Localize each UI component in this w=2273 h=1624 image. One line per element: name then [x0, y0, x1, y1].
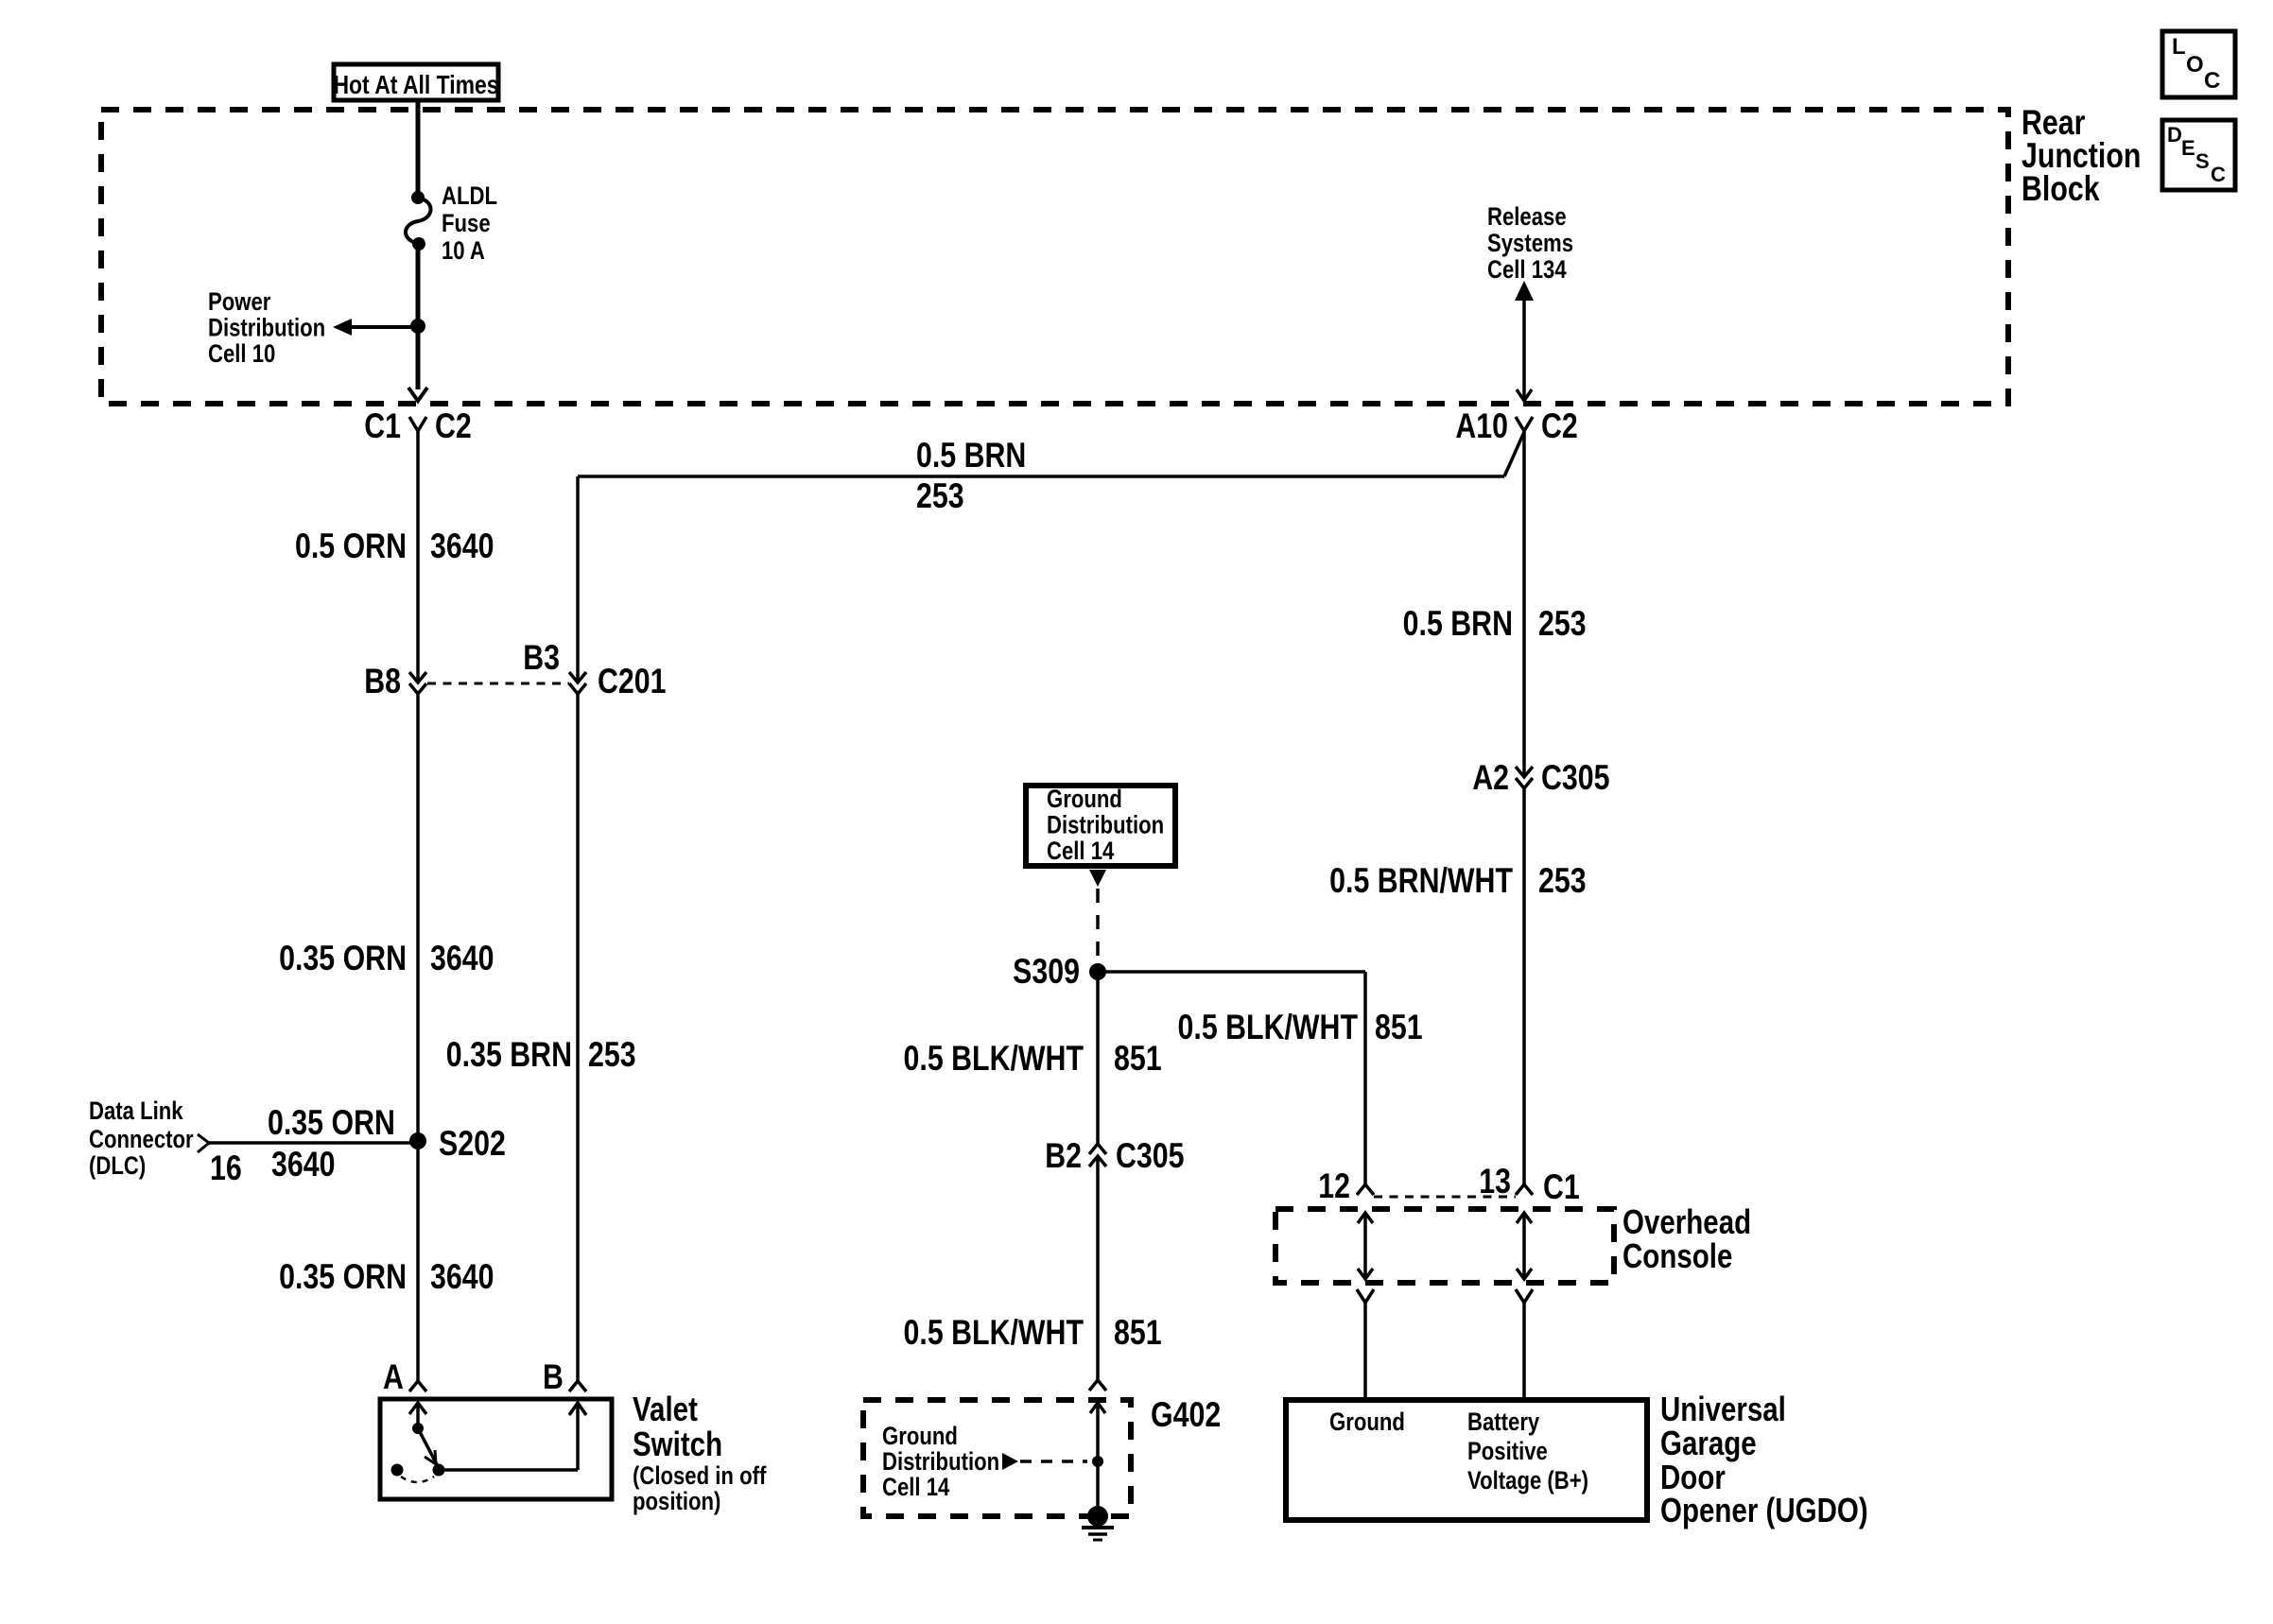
- connector label C305: [1541, 758, 1610, 798]
- terminal chevron B of valet switch: [569, 1381, 586, 1391]
- pin label A10: [1455, 406, 1508, 446]
- svg-text:0.5 BRN: 0.5 BRN: [1403, 604, 1513, 644]
- label: 253 right: [1538, 604, 1587, 644]
- svg-text:Valet: Valet: [633, 1390, 698, 1427]
- svg-text:0.35 ORN: 0.35 ORN: [279, 1257, 407, 1297]
- svg-text:Opener (UGDO): Opener (UGDO): [1660, 1491, 1868, 1529]
- svg-text:3640: 3640: [430, 939, 494, 978]
- svg-text:C2: C2: [1541, 406, 1578, 446]
- svg-text:B3: B3: [523, 638, 560, 678]
- connector C305 A2 halves: [1516, 767, 1533, 788]
- wire: 0.5 BLK/WHT 851 to G402: [1096, 1156, 1100, 1380]
- label: 0.5 BRN right: [1403, 604, 1513, 644]
- svg-text:Garage: Garage: [1660, 1424, 1757, 1461]
- svg-text:253: 253: [916, 476, 964, 516]
- terminal chevron pin 13: [1516, 1184, 1533, 1195]
- svg-text:E: E: [2181, 136, 2195, 160]
- label: 851 lower: [1114, 1313, 1162, 1353]
- pin label 16: [210, 1149, 242, 1188]
- svg-text:Ground: Ground: [1047, 786, 1122, 814]
- splice label S309: [1013, 952, 1080, 992]
- svg-text:Power: Power: [208, 288, 271, 317]
- G402 internal arrow: [1090, 1403, 1105, 1516]
- svg-text:0.35 BRN: 0.35 BRN: [446, 1035, 572, 1075]
- pin label 12: [1318, 1166, 1350, 1206]
- label: Overhead Console: [1622, 1202, 1751, 1274]
- svg-text:C305: C305: [1116, 1136, 1185, 1176]
- svg-text:12: 12: [1318, 1166, 1350, 1206]
- label: 0.35 ORN lower: [279, 1257, 407, 1297]
- svg-text:16: 16: [210, 1149, 242, 1188]
- valet switch open contact dot: [391, 1464, 404, 1477]
- wire: corner down to console pin 12: [1363, 972, 1367, 1184]
- connector A10/C2 of Rear Junction Block: [1516, 417, 1533, 431]
- node: splice to Power Distribution: [410, 319, 425, 334]
- label: 0.35 ORN upper: [279, 939, 407, 978]
- wire: corner down to C201 B3: [576, 476, 580, 682]
- pin label A2: [1472, 758, 1509, 798]
- arrow to Power Distribution Cell 10: [333, 319, 352, 336]
- svg-text:253: 253: [1538, 861, 1587, 901]
- svg-text:G402: G402: [1151, 1395, 1221, 1435]
- svg-text:0.5 BLK/WHT: 0.5 BLK/WHT: [904, 1313, 1084, 1353]
- pin label 13: [1479, 1162, 1511, 1201]
- label: 3640: [430, 527, 494, 566]
- wire: diagonal into A10/C2: [1504, 432, 1524, 476]
- label: 0.5 BRN/WHT: [1329, 861, 1513, 901]
- legend box DESC: [2162, 120, 2235, 190]
- svg-text:ALDL: ALDL: [442, 182, 497, 211]
- label: 3640 lower: [430, 1257, 494, 1297]
- svg-text:Cell 14: Cell 14: [1047, 838, 1115, 866]
- svg-text:position): position): [633, 1488, 720, 1516]
- svg-text:C: C: [2211, 163, 2226, 186]
- svg-text:B8: B8: [364, 662, 401, 701]
- svg-text:10 A: 10 A: [442, 237, 485, 266]
- label: 0.5 BRN top: [916, 436, 1026, 475]
- wire: battery lead to UGDO: [1522, 1303, 1526, 1399]
- pin label C2 right: [1541, 406, 1578, 446]
- svg-text:D: D: [2167, 123, 2182, 147]
- valet switch pivot dot: [412, 1423, 424, 1434]
- arrow to Release Systems Cell 134: [1515, 281, 1534, 401]
- svg-text:Distribution: Distribution: [1047, 812, 1164, 840]
- pin label C1: [364, 406, 401, 446]
- label: 253 mid-left: [588, 1035, 636, 1075]
- svg-text:C201: C201: [598, 662, 667, 701]
- svg-text:Release: Release: [1487, 203, 1567, 232]
- pin label Battery Positive Voltage (B+): [1467, 1408, 1588, 1495]
- pin label A: [383, 1357, 404, 1397]
- arrowhead: hot feed leaving junction block: [408, 388, 427, 401]
- svg-text:Cell 10: Cell 10: [208, 340, 275, 369]
- splice label S202: [439, 1124, 506, 1164]
- svg-text:(DLC): (DLC): [89, 1152, 146, 1181]
- label: 3640 branch: [271, 1145, 335, 1184]
- connector chevron below console pin 12: [1357, 1289, 1374, 1303]
- wire: 0.5 BLK/WHT 851 S309 branch right: [1098, 970, 1365, 974]
- connector C1/C2 of Rear Junction Block: [409, 417, 426, 431]
- svg-text:3640: 3640: [430, 1257, 494, 1297]
- component box: Overhead Console dashed: [1275, 1209, 1614, 1283]
- svg-text:Battery: Battery: [1467, 1408, 1539, 1437]
- svg-text:3640: 3640: [271, 1145, 335, 1184]
- label: 851 branch: [1375, 1008, 1423, 1047]
- svg-text:S309: S309: [1013, 952, 1080, 992]
- valet switch internal wire to B: [439, 1403, 586, 1470]
- svg-text:Data Link: Data Link: [89, 1097, 183, 1126]
- svg-text:0.35 ORN: 0.35 ORN: [268, 1103, 395, 1143]
- svg-text:Distribution: Distribution: [882, 1448, 999, 1477]
- wire: 0.5 BRN 253 horizontal run: [578, 475, 1504, 478]
- wire: 0.5 BRN/WHT 253 from C305 to console: [1522, 788, 1526, 1184]
- svg-text:Ground: Ground: [1329, 1408, 1405, 1437]
- label: 0.5 BLK/WHT lower: [904, 1313, 1084, 1353]
- label: 0.35 ORN branch: [268, 1103, 395, 1143]
- node: splice S309: [1089, 963, 1106, 980]
- svg-text:Block: Block: [2021, 169, 2100, 209]
- pin label B8: [364, 662, 401, 701]
- svg-text:0.5 BRN: 0.5 BRN: [916, 436, 1026, 475]
- terminal chevron A of valet switch: [409, 1381, 426, 1391]
- svg-text:Systems: Systems: [1487, 230, 1573, 258]
- svg-text:0.5 ORN: 0.5 ORN: [295, 527, 407, 566]
- svg-text:S: S: [2195, 149, 2210, 173]
- svg-text:851: 851: [1114, 1313, 1162, 1353]
- svg-text:B2: B2: [1045, 1136, 1082, 1176]
- connector chevron below console pin 13: [1516, 1289, 1533, 1303]
- wire: ground lead to UGDO: [1363, 1303, 1367, 1399]
- svg-text:Positive: Positive: [1467, 1438, 1548, 1466]
- terminal chevron into G402: [1089, 1380, 1106, 1391]
- connector C201 halves B3 side: [569, 672, 586, 694]
- svg-text:0.5 BLK/WHT: 0.5 BLK/WHT: [904, 1039, 1084, 1079]
- svg-text:O: O: [2186, 52, 2204, 78]
- component box: Universal Garage Door Opener: [1286, 1400, 1647, 1520]
- svg-text:C1: C1: [1543, 1167, 1580, 1207]
- label: Universal Garage Door Opener (UGDO): [1660, 1390, 1868, 1529]
- wire: hot feed into junction block: [416, 100, 421, 198]
- label: 3640 upper: [430, 939, 494, 978]
- svg-text:A2: A2: [1472, 758, 1509, 798]
- valet switch blade contact dot: [433, 1464, 445, 1477]
- label: 0.35 BRN: [446, 1035, 572, 1075]
- pin label C2: [435, 406, 472, 446]
- svg-text:Switch: Switch: [633, 1425, 722, 1462]
- label: Data Link Connector (DLC): [89, 1097, 194, 1181]
- console internal arrow pin 12: [1358, 1213, 1373, 1279]
- dashed tie line across connector C1: [1374, 1196, 1516, 1199]
- connector label C305 lower: [1116, 1136, 1185, 1176]
- svg-text:C2: C2: [435, 406, 472, 446]
- svg-text:Cell 134: Cell 134: [1487, 256, 1567, 285]
- label: Power Distribution Cell 10: [208, 288, 325, 369]
- valet switch blade: [418, 1428, 439, 1468]
- svg-text:A10: A10: [1455, 406, 1508, 446]
- wire: branch to Power Distribution: [351, 325, 418, 329]
- label: Ground Distribution Cell 14 top: [1047, 786, 1164, 866]
- arrow from Ground Distribution tag: [1089, 870, 1106, 887]
- svg-text:A: A: [383, 1357, 404, 1397]
- label: ALDL Fuse 10 A: [442, 182, 497, 266]
- fuse ALDL Fuse 10 A symbol: [406, 191, 431, 251]
- pin label B: [543, 1357, 564, 1397]
- component box: Ground Distribution Cell 14 tag: [1026, 786, 1175, 866]
- arrow from Ground Distribution Cell 14 lower: [1002, 1453, 1087, 1470]
- svg-text:3640: 3640: [430, 527, 494, 566]
- component box: ground splice G402 dashed: [863, 1400, 1131, 1516]
- svg-text:Overhead: Overhead: [1622, 1202, 1751, 1240]
- svg-text:Connector: Connector: [89, 1126, 194, 1154]
- svg-text:0.35 ORN: 0.35 ORN: [279, 939, 407, 978]
- svg-text:Hot At All Times: Hot At All Times: [333, 71, 498, 100]
- svg-text:Universal: Universal: [1660, 1390, 1786, 1427]
- svg-text:Ground: Ground: [882, 1423, 958, 1451]
- node: splice S202: [409, 1132, 426, 1149]
- svg-text:C1: C1: [364, 406, 401, 446]
- connector C305 B2 halves: [1089, 1144, 1106, 1166]
- terminal chevron pin 12: [1357, 1184, 1374, 1195]
- dashed tie line across connector C201: [427, 682, 569, 685]
- svg-text:S202: S202: [439, 1124, 506, 1164]
- svg-text:C: C: [2204, 68, 2220, 94]
- label: Release Systems Cell 134: [1487, 203, 1573, 285]
- svg-text:L: L: [2172, 34, 2186, 60]
- svg-text:Distribution: Distribution: [208, 315, 325, 343]
- ground symbol G402: [1082, 1506, 1114, 1540]
- wire: 0.5 ORN 3640 from C2 to C201: [416, 431, 420, 682]
- wire: 0.5 BRN 253 from C2 to C305: [1522, 431, 1526, 777]
- label: 0.5 BLK/WHT branch: [1178, 1008, 1359, 1047]
- label: Rear Junction Block: [2021, 103, 2141, 209]
- wire: fuse output: [416, 244, 421, 389]
- svg-text:B: B: [543, 1357, 564, 1397]
- pin label Ground UGDO: [1329, 1408, 1405, 1437]
- svg-text:Console: Console: [1622, 1236, 1732, 1274]
- svg-text:Fuse: Fuse: [442, 210, 491, 238]
- connector half at DLC: [198, 1134, 209, 1152]
- power tag: Hot At All Times box: [334, 64, 498, 100]
- component box: Valet Switch: [380, 1399, 612, 1499]
- junction block: Rear Junction Block dashed outline: [101, 110, 2008, 404]
- svg-text:C305: C305: [1541, 758, 1610, 798]
- connector C201 halves B8 side: [409, 672, 426, 694]
- label: 851 mid: [1114, 1039, 1162, 1079]
- ground net label G402: [1151, 1395, 1221, 1435]
- label: 253 top: [916, 476, 964, 516]
- legend text LOC: [2172, 34, 2220, 94]
- label: (Closed in off position): [633, 1462, 767, 1516]
- wire: 0.5 BLK/WHT 851 down from S309: [1096, 972, 1100, 1144]
- svg-text:Voltage (B+): Voltage (B+): [1467, 1467, 1588, 1495]
- pin label B3: [523, 638, 560, 678]
- valet switch dashed travel arc: [401, 1477, 434, 1482]
- svg-text:851: 851: [1114, 1039, 1162, 1079]
- svg-text:851: 851: [1375, 1008, 1423, 1047]
- label: 0.5 ORN: [295, 527, 407, 566]
- svg-text:(Closed in off: (Closed in off: [633, 1462, 767, 1491]
- label: Ground Distribution Cell 14 lower: [882, 1423, 999, 1502]
- wire: 0.35 ORN 3640 from C201 to S202: [416, 694, 420, 1381]
- label: 0.5 BLK/WHT mid: [904, 1039, 1084, 1079]
- connector label C1 console: [1543, 1167, 1580, 1207]
- label: 253 brnwht: [1538, 861, 1587, 901]
- svg-text:0.5 BRN/WHT: 0.5 BRN/WHT: [1329, 861, 1513, 901]
- svg-text:0.5 BLK/WHT: 0.5 BLK/WHT: [1178, 1008, 1359, 1047]
- svg-text:253: 253: [1538, 604, 1587, 644]
- connector label C201: [598, 662, 667, 701]
- svg-text:Cell 14: Cell 14: [882, 1474, 950, 1502]
- pin label B2: [1045, 1136, 1082, 1176]
- svg-text:253: 253: [588, 1035, 636, 1075]
- label: Valet Switch: [633, 1390, 722, 1462]
- console internal arrow pin 13: [1517, 1213, 1532, 1279]
- dashed wire to S309: [1096, 889, 1100, 963]
- wire: 0.35 ORN 3640 DLC branch: [209, 1141, 418, 1145]
- wire: 0.35 BRN 253 from C201 to valet switch: [576, 694, 580, 1381]
- legend text DESC: [2167, 123, 2226, 186]
- legend box LOC: [2162, 31, 2235, 97]
- valet switch arm arrow at A: [409, 1403, 426, 1428]
- node on G402 wire: [1092, 1456, 1103, 1467]
- power tag text: [333, 71, 498, 100]
